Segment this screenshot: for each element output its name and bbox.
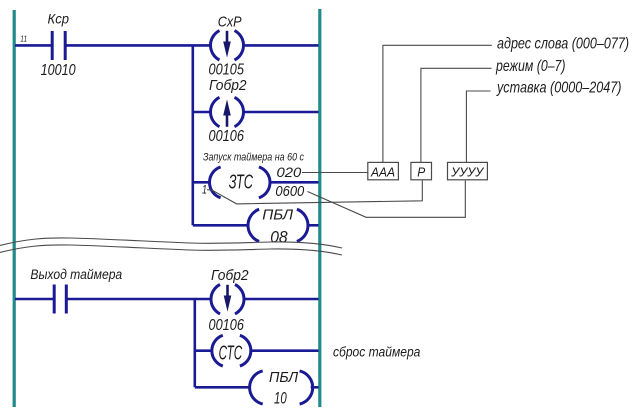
break wavy line top — [0, 238, 342, 248]
svg-text:сброс таймера: сброс таймера — [333, 344, 421, 359]
wire rung7 — [195, 386, 250, 389]
wire rung4 to right rail — [308, 224, 319, 227]
svg-text:00105: 00105 — [209, 62, 245, 79]
svg-text:Выход таймера: Выход таймера — [30, 267, 122, 282]
leader 020 to ААА — [302, 172, 368, 174]
coil СхР — [210, 31, 243, 60]
svg-text:режим (0–7): режим (0–7) — [495, 58, 565, 75]
leader 0600 to УУУУ — [308, 181, 466, 218]
wire rung1 to coil — [67, 44, 211, 47]
svg-text:00106: 00106 — [209, 128, 245, 145]
svg-text:Гобр2: Гобр2 — [209, 78, 247, 94]
wire rung6 to right rail — [251, 349, 319, 352]
annotation box Р — [411, 162, 432, 179]
svg-text:Запуск таймера на 60 с: Запуск таймера на 60 с — [203, 152, 304, 164]
svg-text:СТС: СТС — [219, 343, 243, 365]
block ПБЛ 10 — [250, 371, 313, 404]
svg-text:ААА: ААА — [370, 165, 395, 180]
wire rung5 to coil — [67, 298, 211, 301]
right power rail — [318, 9, 321, 407]
svg-text:ПБЛ: ПБЛ — [262, 207, 294, 224]
timer ЗТС — [209, 167, 270, 198]
wire rung3 to right rail — [270, 181, 318, 184]
svg-text:Кср: Кср — [48, 11, 70, 26]
svg-text:10010: 10010 — [41, 62, 76, 79]
leader 1 to Р — [207, 181, 422, 204]
contact Кср — [52, 31, 65, 60]
svg-text:00106: 00106 — [209, 317, 245, 334]
svg-text:уставка (0000–2047): уставка (0000–2047) — [496, 80, 621, 97]
wire rung7 to right rail — [311, 386, 319, 389]
leader режим — [421, 68, 492, 162]
svg-text:10: 10 — [274, 389, 287, 407]
svg-text:ЗТС: ЗТС — [229, 172, 254, 194]
svg-text:Гобр2: Гобр2 — [211, 268, 249, 284]
coil Гобр2 — [210, 97, 243, 127]
wire rung2 to right rail — [244, 111, 319, 114]
branch wire bottom — [194, 299, 197, 387]
coil СТС — [212, 335, 251, 366]
annotation box ААА — [368, 162, 399, 179]
wire rung1 left — [15, 44, 51, 47]
svg-text:08: 08 — [270, 227, 288, 246]
left power rail — [13, 10, 16, 407]
wire rung4 — [193, 224, 249, 227]
leader уставка — [466, 91, 490, 162]
wire rung1 to right rail — [244, 44, 319, 47]
contact Выход таймера — [54, 285, 66, 314]
wire rung6 — [195, 349, 213, 352]
svg-text:адрес слова (000–077): адрес слова (000–077) — [497, 36, 629, 53]
annotation box УУУУ — [448, 162, 488, 179]
branch wire vertical — [192, 45, 195, 225]
break wavy line bottom — [0, 245, 342, 255]
wire rung3 — [193, 181, 210, 184]
svg-text:Р: Р — [417, 165, 425, 180]
svg-text:020: 020 — [277, 165, 302, 180]
leader адрес слова — [383, 45, 492, 162]
svg-text:0600: 0600 — [275, 184, 304, 200]
wire rung2 — [193, 111, 211, 114]
svg-text:1: 1 — [202, 183, 207, 197]
svg-text:11: 11 — [20, 34, 27, 44]
coil Гобр2 bottom — [211, 285, 244, 314]
svg-text:СхР: СхР — [218, 14, 242, 30]
svg-text:ПБЛ: ПБЛ — [269, 369, 299, 386]
wire rung5 to right rail — [244, 298, 319, 301]
svg-text:УУУУ: УУУУ — [450, 165, 485, 180]
wire rung5 left — [15, 298, 54, 301]
block ПБЛ 08 — [248, 209, 308, 241]
